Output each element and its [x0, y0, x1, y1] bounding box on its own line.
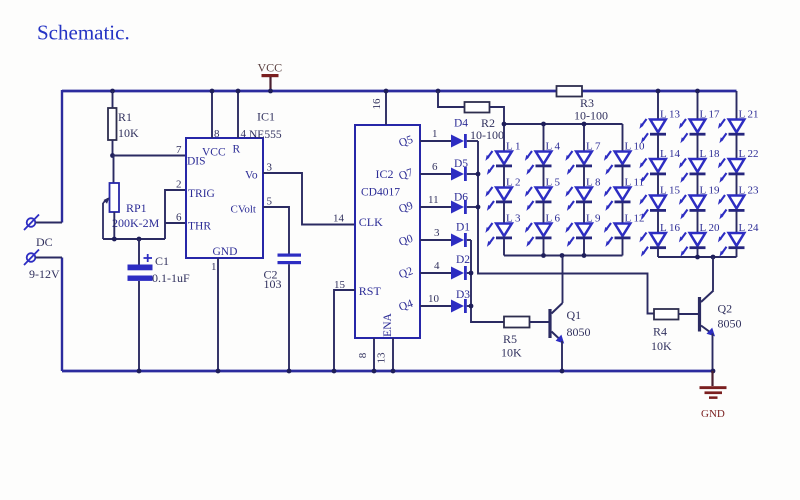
LED L12	[604, 223, 631, 247]
label L10	[625, 141, 646, 153]
label IC2 Q9	[397, 200, 415, 216]
label L20	[700, 222, 721, 234]
wire rail to R2	[438, 91, 465, 107]
svg-text:L 3: L 3	[506, 213, 521, 225]
diode D1	[451, 233, 467, 247]
wire D4 cathode to bus	[467, 140, 478, 142]
wire left vertical lower	[61, 258, 63, 372]
label R3 value	[574, 109, 608, 123]
label L11	[625, 177, 645, 189]
wire terminal1 to left rail	[36, 222, 63, 224]
svg-text:10-100: 10-100	[574, 109, 608, 123]
wire D1 cathode to bus	[467, 239, 471, 241]
op-amp U2 IC2 CD4017 box	[355, 125, 420, 338]
wire Vo pin3	[263, 173, 355, 225]
resistor R2	[465, 102, 490, 113]
wire D1-D3 bus	[471, 240, 504, 322]
svg-text:L 20: L 20	[700, 222, 721, 234]
transistor Q2	[700, 291, 716, 337]
label Q1 type	[567, 325, 591, 339]
label IC2 RST	[359, 284, 382, 298]
LED L22	[718, 159, 745, 183]
svg-text:DIS: DIS	[187, 156, 206, 168]
junction D2 bus	[469, 271, 474, 276]
label pin 11	[428, 194, 439, 206]
svg-text:DC: DC	[36, 235, 53, 249]
transistor Q1	[550, 303, 564, 344]
label L3	[506, 213, 521, 225]
svg-text:10K: 10K	[651, 339, 672, 353]
label IC2 CLK	[359, 215, 383, 229]
svg-text:L 23: L 23	[739, 185, 760, 197]
label L22	[739, 148, 759, 160]
diode D5	[451, 167, 467, 181]
wire LED g2 column x697.5	[697, 91, 699, 257]
svg-text:Q0: Q0	[397, 233, 415, 249]
wire pin8 stub	[211, 91, 213, 138]
wire C2 bottom	[288, 264, 290, 371]
wire R1 top	[112, 91, 114, 108]
label L2	[506, 177, 521, 189]
svg-text:L 10: L 10	[625, 141, 646, 153]
svg-text:RST: RST	[359, 284, 382, 298]
junction pin8 rail	[210, 89, 215, 94]
svg-text:103: 103	[264, 277, 282, 291]
label L12	[625, 213, 645, 225]
label IC2 ENA	[382, 312, 394, 336]
svg-text:7: 7	[176, 144, 182, 156]
svg-text:8: 8	[214, 128, 220, 140]
LED L4	[525, 151, 552, 175]
svg-text:D6: D6	[454, 192, 468, 204]
label R1 value	[118, 126, 139, 140]
wire RP1 bottom	[113, 212, 115, 239]
label L5	[546, 177, 561, 189]
wire left vertical upper	[61, 90, 63, 223]
label L24	[739, 222, 760, 234]
svg-text:Q2: Q2	[397, 265, 415, 281]
LED L3	[485, 223, 512, 247]
label Q2 type	[718, 317, 742, 331]
LED L8	[565, 187, 592, 211]
svg-text:1: 1	[432, 128, 438, 140]
svg-text:10K: 10K	[501, 346, 522, 360]
junction Q1 emitter rail	[560, 369, 565, 374]
wire THR pin6	[165, 222, 186, 224]
resistor R3	[557, 86, 583, 97]
svg-text:R: R	[233, 144, 241, 156]
svg-text:L 7: L 7	[586, 141, 601, 153]
svg-text:IC2: IC2	[376, 167, 394, 181]
label Q1	[567, 308, 582, 322]
svg-text:D4: D4	[454, 118, 468, 130]
label IC1	[257, 110, 275, 124]
junction C2 on rail	[287, 369, 292, 374]
label IC1 TRIG	[188, 188, 215, 200]
svg-text:5: 5	[267, 196, 273, 208]
svg-text:ENA: ENA	[382, 312, 394, 336]
label Q2	[718, 302, 733, 316]
svg-text:L 4: L 4	[546, 141, 561, 153]
LED L7	[565, 151, 592, 175]
svg-text:L 21: L 21	[739, 109, 759, 121]
wire D6 to bus	[467, 206, 478, 208]
svg-text:L 1: L 1	[506, 141, 521, 153]
resistor R5	[504, 317, 530, 328]
diode D6	[451, 200, 467, 214]
label D4	[454, 118, 468, 130]
LED L6	[525, 223, 552, 247]
svg-text:R1: R1	[118, 110, 132, 124]
label IC2 Q0	[397, 233, 415, 249]
wire R5 to Q1 base	[530, 321, 550, 323]
wire Q out row5	[420, 272, 451, 274]
svg-text:CLK: CLK	[359, 215, 383, 229]
label pin 1	[432, 128, 438, 140]
resistor R1	[108, 108, 117, 140]
wire CVolt pin5	[263, 207, 289, 254]
wire Q1 collector	[562, 256, 564, 304]
label L8	[586, 177, 601, 189]
svg-text:L 2: L 2	[506, 177, 521, 189]
terminal DC positive	[24, 215, 39, 231]
svg-text:NE555: NE555	[249, 129, 282, 141]
svg-text:L 6: L 6	[546, 213, 561, 225]
label pin 6	[432, 161, 438, 173]
LED L23	[718, 195, 745, 219]
label L23	[739, 185, 760, 197]
wire R1 to RP1	[113, 156, 115, 184]
junction C1 on rail	[137, 369, 142, 374]
svg-text:L 18: L 18	[700, 148, 721, 160]
label L9	[586, 213, 601, 225]
svg-text:6: 6	[176, 212, 182, 224]
svg-text:R5: R5	[503, 332, 517, 346]
junction Q2 emitter rail	[711, 369, 716, 374]
junction group1 top x584	[582, 122, 587, 127]
junction C1 tap	[137, 237, 142, 242]
junction pin8b rail	[372, 369, 377, 374]
LED L13	[639, 119, 666, 143]
svg-text:L 19: L 19	[700, 185, 721, 197]
label L1	[506, 141, 521, 153]
svg-text:IC1: IC1	[257, 110, 275, 124]
potentiometer RP1 body	[110, 183, 120, 212]
label pin 14	[333, 213, 345, 225]
svg-text:R4: R4	[653, 325, 667, 339]
LED L17	[679, 119, 706, 143]
label IC1 Vo	[245, 170, 258, 182]
label pin 1	[211, 261, 217, 273]
svg-text:15: 15	[334, 279, 346, 291]
wire pin4 stub	[237, 91, 239, 138]
svg-text:VCC: VCC	[258, 61, 283, 75]
label pin 4	[241, 128, 247, 140]
LED L5	[525, 187, 552, 211]
LED L14	[639, 159, 666, 183]
label IC2 Q7	[397, 167, 415, 183]
svg-text:9-12V: 9-12V	[29, 267, 60, 281]
svg-text:L 16: L 16	[660, 222, 681, 234]
wire LED group1 top bus	[504, 123, 623, 125]
junction D6 bus	[476, 205, 481, 210]
label pin 7	[176, 144, 182, 156]
svg-text:8050: 8050	[567, 325, 591, 339]
wire top VCC rail	[62, 90, 737, 93]
svg-text:L 15: L 15	[660, 185, 681, 197]
label D2	[456, 254, 470, 266]
svg-text:CVolt: CVolt	[231, 204, 256, 216]
label L4	[546, 141, 561, 153]
junction group1 bottom x543.5	[541, 253, 546, 258]
label pin 4	[434, 260, 440, 272]
op-amp U1 IC1 NE555 box	[186, 138, 263, 258]
label IC2 Q4	[397, 298, 415, 314]
svg-text:Schematic.: Schematic.	[37, 21, 130, 45]
label R4	[653, 325, 667, 339]
wire pin8b stub	[373, 338, 375, 371]
junction pin1 rail	[216, 369, 221, 374]
svg-text:THR: THR	[188, 221, 211, 233]
svg-text:Vo: Vo	[245, 170, 258, 182]
svg-text:16: 16	[371, 98, 383, 110]
label IC1 GND	[213, 246, 238, 258]
svg-text:10: 10	[428, 293, 440, 305]
label pin 10	[428, 293, 440, 305]
junction D5 bus	[476, 172, 481, 177]
wire bottom ground rail	[62, 370, 713, 373]
capacitor C1 plus	[144, 254, 153, 262]
label pin 8b	[357, 352, 369, 358]
label L6	[546, 213, 561, 225]
svg-text:2: 2	[176, 179, 182, 191]
label 9-12V	[29, 267, 60, 281]
junction pin4 rail	[236, 89, 241, 94]
svg-text:GND: GND	[701, 408, 725, 420]
title text	[37, 21, 130, 45]
label GND	[701, 408, 725, 420]
wire Q out row4	[420, 239, 451, 241]
svg-text:L 24: L 24	[739, 222, 760, 234]
junction group1 bottom x584	[582, 253, 587, 258]
svg-text:D3: D3	[456, 289, 470, 301]
svg-text:13: 13	[376, 352, 388, 364]
label R5	[503, 332, 517, 346]
junction group1 top x504	[502, 122, 507, 127]
junction pin13 rail	[391, 369, 396, 374]
label R5 value	[501, 346, 522, 360]
label pin 3	[434, 227, 440, 239]
junction group1 top x543.5	[541, 122, 546, 127]
wire pin16 stub	[385, 91, 387, 125]
wire D2 to bus	[467, 272, 471, 274]
wire C1 top	[138, 239, 140, 265]
label IC1 CVolt	[231, 204, 256, 216]
junction VCC on rail	[268, 89, 273, 94]
label R4 value	[651, 339, 672, 353]
potentiometer RP1 wiper	[103, 197, 110, 239]
svg-text:L 17: L 17	[700, 109, 721, 121]
label IC2 Q5	[397, 134, 415, 150]
junction g2 bottom x697	[695, 255, 700, 260]
junction RST rail	[332, 369, 337, 374]
label L13	[660, 109, 681, 121]
label C1 value	[152, 271, 190, 285]
label D3	[456, 289, 470, 301]
wire LED g2 column x658	[657, 91, 659, 257]
LED L19	[679, 195, 706, 219]
wire Q2 collector	[712, 257, 714, 291]
wire pin1 GND stub	[217, 258, 219, 371]
label R2	[481, 116, 495, 130]
wire LED group2 bottom bus	[658, 256, 737, 258]
label L14	[660, 148, 681, 160]
svg-text:CD4017: CD4017	[361, 187, 400, 199]
LED L9	[565, 223, 592, 247]
label R1	[118, 110, 132, 124]
svg-text:4: 4	[241, 128, 247, 140]
junction g2 rail x658	[656, 89, 661, 94]
svg-text:L 13: L 13	[660, 109, 681, 121]
svg-text:TRIG: TRIG	[188, 188, 215, 200]
svg-text:D2: D2	[456, 254, 470, 266]
label D5	[454, 158, 468, 170]
LED L21	[718, 119, 745, 143]
wire R4 to Q2 base	[679, 313, 700, 315]
wire Q1 emitter	[561, 341, 563, 371]
wire Q2 emitter	[712, 334, 714, 372]
junction D3 bus	[469, 304, 474, 309]
label pin 13	[376, 352, 388, 364]
svg-text:4: 4	[434, 260, 440, 272]
diode D3	[451, 299, 467, 313]
svg-text:L 22: L 22	[739, 148, 759, 160]
label RP1 value	[112, 216, 160, 230]
label L7	[586, 141, 601, 153]
junction g2 bottom Q2	[711, 255, 716, 260]
wire LED column x622.5	[622, 124, 624, 256]
label pin 3	[267, 162, 273, 174]
label L18	[700, 148, 721, 160]
wire DIS pin7	[113, 155, 187, 157]
svg-text:3: 3	[434, 227, 440, 239]
LED L11	[604, 187, 631, 211]
label DC	[36, 235, 53, 249]
svg-text:Q4: Q4	[397, 298, 415, 314]
wire D5 to bus	[467, 173, 478, 175]
label L17	[700, 109, 721, 121]
svg-text:Q9: Q9	[397, 200, 415, 216]
svg-text:Q2: Q2	[718, 302, 733, 316]
svg-text:8: 8	[357, 352, 369, 358]
wire LED column x504	[503, 124, 505, 256]
svg-text:10K: 10K	[118, 126, 139, 140]
wire node line	[103, 238, 165, 240]
label IC2	[376, 167, 394, 181]
wire Q out row6	[420, 305, 451, 307]
label IC1 DIS	[187, 156, 206, 168]
label pin 15	[334, 279, 346, 291]
capacitor C1	[128, 265, 153, 281]
svg-text:11: 11	[428, 194, 439, 206]
svg-text:8050: 8050	[718, 317, 742, 331]
svg-text:Q7: Q7	[397, 167, 415, 183]
wire Q out row1	[420, 140, 451, 142]
label L19	[700, 185, 721, 197]
label C2	[264, 268, 278, 282]
wire R1 bottom	[112, 140, 114, 156]
LED L16	[639, 233, 666, 257]
wire LED column x584	[583, 124, 585, 256]
svg-text:L 14: L 14	[660, 148, 681, 160]
label NE555	[249, 129, 282, 141]
wire D4-D6 bus	[478, 141, 654, 314]
svg-text:Q5: Q5	[397, 134, 415, 150]
label pin 8	[214, 128, 220, 140]
label pin 2	[176, 179, 182, 191]
LED L18	[679, 159, 706, 183]
label RP1	[126, 201, 147, 215]
wire R2 to LED bus	[490, 107, 505, 124]
svg-text:200K-2M: 200K-2M	[112, 216, 160, 230]
svg-text:10-100: 10-100	[470, 128, 504, 142]
wire RST pin15	[334, 290, 355, 371]
svg-text:3: 3	[267, 162, 273, 174]
LED L15	[639, 195, 666, 219]
wire LED column x543.5	[543, 124, 545, 256]
junction R1 top on rail	[110, 89, 115, 94]
label R3	[580, 96, 594, 110]
label C2 value	[264, 277, 282, 291]
wire C1 bottom	[138, 281, 140, 371]
capacitor C2	[278, 254, 302, 265]
junction group1 bottom x562	[560, 253, 565, 258]
label L15	[660, 185, 681, 197]
svg-text:14: 14	[333, 213, 345, 225]
label pin 6	[176, 212, 182, 224]
svg-text:RP1: RP1	[126, 201, 147, 215]
label IC1 R	[233, 144, 241, 156]
junction R2 rail	[436, 89, 441, 94]
svg-text:Q1: Q1	[567, 308, 582, 322]
junction g2 rail x697	[695, 89, 700, 94]
svg-text:C1: C1	[155, 254, 169, 268]
svg-text:0.1-1uF: 0.1-1uF	[152, 271, 190, 285]
svg-text:VCC: VCC	[202, 147, 226, 159]
wire pin13 stub	[392, 338, 394, 371]
LED L10	[604, 151, 631, 175]
resistor R4	[654, 309, 679, 320]
label pin 16	[371, 98, 383, 110]
label CD4017	[361, 187, 400, 199]
svg-text:GND: GND	[213, 246, 238, 258]
svg-text:D5: D5	[454, 158, 468, 170]
LED L1	[485, 151, 512, 175]
wire TRIG pin2	[165, 190, 186, 239]
svg-text:6: 6	[432, 161, 438, 173]
label L21	[739, 109, 759, 121]
label R2 value	[470, 128, 504, 142]
label IC1 VCC	[202, 147, 226, 159]
label L16	[660, 222, 681, 234]
junction RP1 bottom	[112, 237, 117, 242]
label IC1 THR	[188, 221, 211, 233]
junction pin16 rail	[384, 89, 389, 94]
wire LED g2 column x736.5	[736, 91, 738, 257]
svg-text:D1: D1	[456, 222, 470, 234]
diode D2	[451, 266, 467, 280]
svg-text:L 8: L 8	[586, 177, 601, 189]
